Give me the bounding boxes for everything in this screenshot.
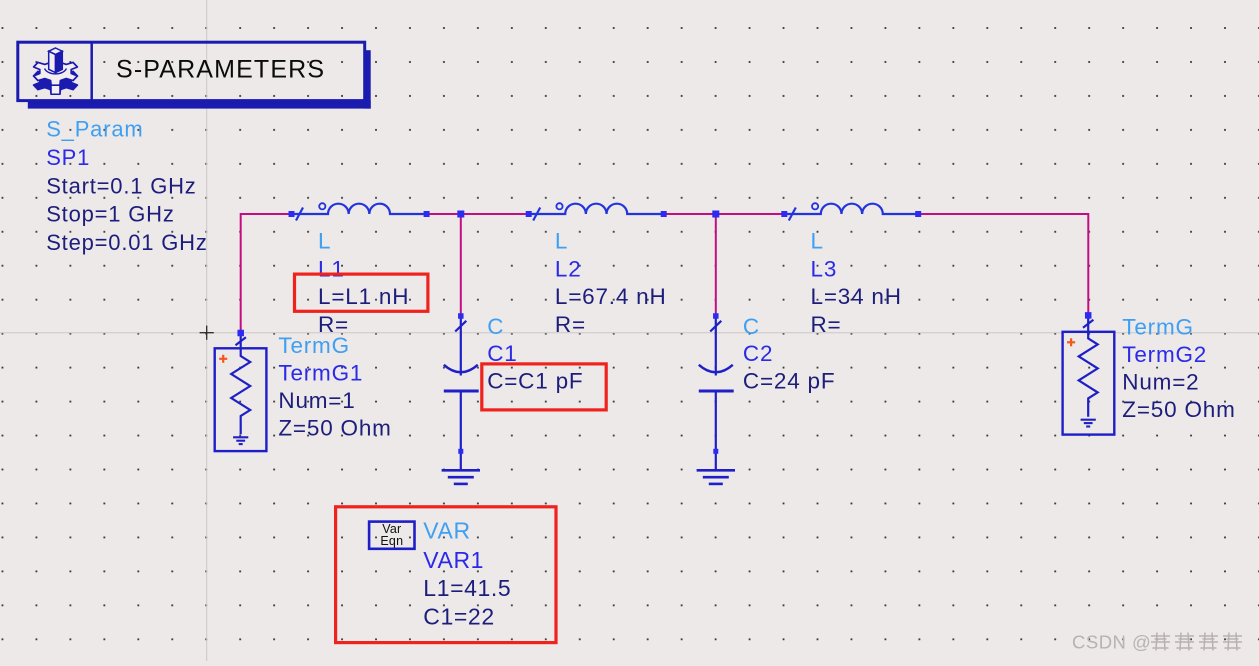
svg-text:L=34 nH: L=34 nH (811, 284, 902, 309)
wire node B down to C2 (715, 214, 717, 316)
svg-text:C=C1 pF: C=C1 pF (487, 368, 583, 393)
wire node A down to C1 (460, 214, 462, 316)
termination TermG2 symbol (1063, 315, 1115, 434)
svg-text:C1=22: C1=22 (423, 604, 494, 630)
svg-text:TermG: TermG (1122, 315, 1194, 340)
node square C1 top (458, 313, 464, 319)
svg-text:VAR: VAR (423, 517, 470, 543)
junction node A (457, 211, 464, 218)
S-parameters gear icon (34, 48, 78, 94)
svg-text:VAR1: VAR1 (423, 547, 484, 573)
svg-text:Stop=1 GHz: Stop=1 GHz (46, 202, 174, 227)
svg-text:TermG2: TermG2 (1122, 342, 1207, 367)
grid axis vertical line (206, 0, 208, 661)
red highlight box around C=C1 pF (482, 364, 606, 410)
svg-text:L3: L3 (811, 256, 838, 281)
svg-text:Start=0.1 GHz: Start=0.1 GHz (46, 173, 196, 198)
node square C2 top (713, 313, 719, 319)
svg-text:SP1: SP1 (46, 145, 90, 170)
node square L1 pin1 (289, 211, 295, 217)
ground under C1 (442, 451, 480, 484)
capacitor C1 symbol (444, 316, 479, 451)
watermark chinese glyphs (1151, 633, 1242, 651)
inductor L1 symbol (292, 203, 427, 220)
ground under C2 (697, 451, 735, 484)
red highlight box around L=L1 nH (295, 274, 428, 311)
svg-text:TermG: TermG (278, 333, 350, 358)
node square TermG2 pin (1085, 312, 1092, 319)
node square L2 pin2 (661, 211, 667, 217)
inductor L2 symbol (529, 203, 664, 220)
inductor L3 symbol (784, 203, 919, 220)
node square L2 pin1 (526, 211, 532, 217)
svg-text:Num=2: Num=2 (1122, 369, 1199, 394)
svg-text:Num=1: Num=1 (278, 388, 355, 413)
svg-text:C: C (743, 314, 760, 339)
termination TermG1 symbol (215, 333, 267, 451)
svg-text:R=: R= (555, 312, 586, 337)
node square L1 pin2 (424, 211, 430, 217)
svg-text:C2: C2 (743, 341, 773, 366)
S-PARAMETERS box divider (90, 42, 93, 100)
node square TermG1 pin (237, 330, 244, 337)
svg-text:L: L (318, 229, 331, 254)
wire left riser and segment to L1 (241, 214, 292, 333)
VAR eqn icon box (369, 522, 414, 549)
grid axis horizontal line (0, 332, 1259, 334)
svg-text:S-PARAMETERS: S-PARAMETERS (116, 56, 325, 84)
S-PARAMETERS box frame (18, 42, 365, 100)
svg-text:C: C (487, 314, 504, 339)
wire L2 to L3 through node B (664, 213, 785, 215)
node square L3 pin1 (781, 211, 787, 217)
svg-text:L2: L2 (555, 256, 582, 281)
svg-text:C=24 pF: C=24 pF (743, 368, 836, 393)
wire L1 to L2 through node A (427, 213, 529, 215)
svg-text:S_Param: S_Param (46, 117, 143, 142)
node square L3 pin2 (915, 211, 921, 217)
svg-text:L=L1 nH: L=L1 nH (318, 284, 409, 309)
svg-text:L: L (811, 229, 824, 254)
node square C2 bottom (713, 449, 718, 454)
svg-text:Z=50 Ohm: Z=50 Ohm (278, 416, 391, 441)
svg-text:L1=41.5: L1=41.5 (423, 575, 511, 601)
svg-text:Z=50 Ohm: Z=50 Ohm (1122, 397, 1235, 422)
svg-text:Eqn: Eqn (380, 534, 403, 548)
S-PARAMETERS box shadow (28, 50, 371, 108)
origin marker cross (200, 326, 214, 340)
svg-text:Step=0.01 GHz: Step=0.01 GHz (46, 230, 207, 255)
junction node B (712, 211, 719, 218)
svg-text:L=67.4 nH: L=67.4 nH (555, 284, 667, 309)
svg-text:L: L (555, 229, 568, 254)
svg-text:L1: L1 (318, 256, 345, 281)
capacitor C2 symbol (699, 316, 734, 451)
red highlight box around VAR block (336, 507, 556, 643)
wire L3 to right riser for Term2 (918, 214, 1088, 315)
svg-text:R=: R= (811, 312, 842, 337)
svg-text:TermG1: TermG1 (278, 361, 363, 386)
node square C1 bottom (458, 449, 463, 454)
svg-text:CSDN @: CSDN @ (1072, 632, 1151, 653)
